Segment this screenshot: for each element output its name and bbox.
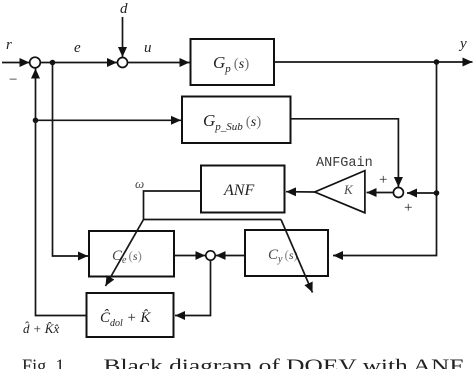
- wire S4 down into Cdol block: [175, 260, 211, 315]
- summing junction S4: [206, 251, 215, 260]
- wire Gp output to y: [274, 61, 473, 63]
- summing junction S1: [30, 57, 41, 68]
- block Cdol + K: [87, 293, 174, 337]
- wire feedback into Gp_Sub: [36, 119, 182, 121]
- svg-text:−: −: [9, 72, 17, 88]
- svg-text:Fig. 1.: Fig. 1.: [22, 356, 69, 369]
- wire S3 to gain triangle: [367, 192, 394, 194]
- wire S1 to S2: [40, 62, 117, 64]
- block Gp(s): [191, 39, 275, 85]
- node N3: [434, 190, 440, 196]
- wire e branch down to Ce: [53, 63, 89, 257]
- gain triangle K: [315, 171, 365, 213]
- wire ANF output omega: [144, 191, 282, 220]
- summing junction S3: [393, 188, 403, 198]
- node N1: [50, 60, 56, 66]
- caption Fig. 1.: [22, 356, 69, 369]
- label ANFGain: [316, 156, 373, 171]
- block Ce(s): [89, 231, 174, 277]
- block ANF: [201, 166, 285, 213]
- wire Cy output into S4: [216, 255, 245, 257]
- svg-text:d̂ + K̂x̂: d̂ + K̂x̂: [23, 321, 59, 336]
- block Gp_Sub(s): [182, 97, 291, 144]
- adaptation arrow through Cy: [281, 220, 313, 293]
- svg-text:K: K: [343, 182, 354, 197]
- node N4: [33, 118, 39, 124]
- svg-text:+: +: [379, 172, 387, 188]
- svg-text:ANF: ANF: [223, 182, 254, 199]
- label e: [74, 40, 81, 56]
- label u: [144, 40, 152, 56]
- adaptation arrow through Ce: [106, 220, 144, 287]
- svg-text:+: +: [404, 200, 412, 216]
- svg-text:Black diagram of DOEV with ANF: Black diagram of DOEV with ANF: [104, 356, 464, 369]
- label plus top: [379, 172, 387, 188]
- wire Ce output into S4: [174, 255, 205, 257]
- node N2 on output: [434, 59, 440, 65]
- wire r input arrow: [2, 62, 30, 64]
- label y: [458, 36, 467, 52]
- wire y feedback down right side: [333, 62, 437, 256]
- wire Cdol output feedback to S1: [36, 69, 87, 316]
- wire Gp_Sub output to S3: [291, 119, 399, 187]
- svg-text:d: d: [120, 1, 128, 17]
- label d: [120, 1, 128, 17]
- wire triangle to ANF: [286, 191, 315, 193]
- label plus bottom: [404, 200, 412, 216]
- svg-text:ANFGain: ANFGain: [316, 156, 373, 171]
- label r: [6, 37, 12, 53]
- svg-text:ω: ω: [135, 176, 144, 191]
- wire N3 into S3: [407, 192, 437, 194]
- svg-text:u: u: [144, 40, 152, 56]
- block Cy(s): [245, 230, 328, 276]
- label omega: [135, 176, 144, 191]
- label minus sign: [9, 72, 17, 88]
- caption Black diagram of DOEV with ANF: [104, 356, 464, 369]
- wire d down into S2: [122, 17, 124, 57]
- svg-text:r: r: [6, 37, 12, 53]
- svg-text:e: e: [74, 40, 81, 56]
- svg-text:y: y: [458, 36, 467, 52]
- summing junction S2: [118, 58, 128, 68]
- label dhat + Khat xhat: [23, 321, 59, 336]
- wire S2 to Gp: [128, 62, 190, 64]
